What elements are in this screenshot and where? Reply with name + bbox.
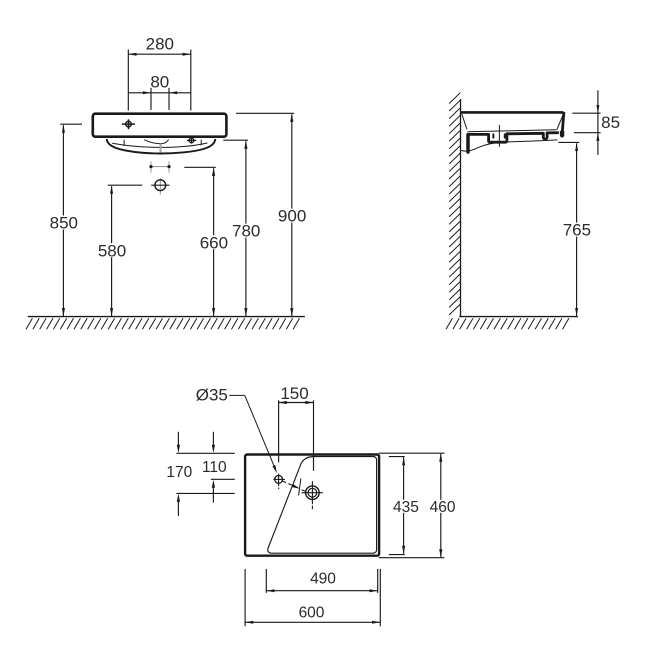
washbasin plan outline — [245, 455, 379, 556]
dimension 850 line — [62, 125, 65, 317]
dimension 660 text — [198, 233, 229, 252]
dimension 150 line — [279, 401, 314, 404]
axis between faucet and drain holes — [282, 481, 306, 492]
svg-text:85: 85 — [601, 113, 620, 132]
label diameter 35 text — [196, 385, 228, 404]
svg-text:660: 660 — [200, 233, 228, 252]
dimension 850 text — [48, 214, 79, 233]
dimension 600 left extension line — [244, 569, 246, 626]
bowl outline front view — [107, 139, 216, 154]
dimension 580 text — [97, 241, 128, 260]
svg-text:765: 765 — [563, 221, 591, 240]
dimension 660 extension line — [184, 166, 216, 168]
dimension 280 line — [128, 53, 191, 56]
floor line front view — [28, 316, 305, 318]
svg-text:780: 780 — [232, 222, 260, 241]
faucet hole symbol front view — [122, 119, 135, 129]
dimension 85 line — [596, 90, 599, 155]
dimension 490 line — [266, 589, 377, 592]
axis tick mark — [299, 478, 301, 495]
dimension 580 line — [110, 186, 113, 317]
basin underside profile side view — [467, 133, 559, 143]
svg-text:80: 80 — [150, 73, 169, 92]
dimension 435 text — [391, 499, 420, 516]
dimension 490 right extension line — [377, 569, 379, 593]
svg-text:600: 600 — [299, 604, 325, 621]
dimension 150 text — [280, 384, 308, 403]
dimension 600 right extension line — [379, 569, 381, 626]
dimension 765 extension line — [558, 141, 579, 143]
dimension 170 text — [166, 464, 192, 481]
svg-text:850: 850 — [50, 214, 78, 233]
bowl inner rim line — [112, 143, 207, 147]
dimension 600 text — [299, 604, 325, 621]
svg-text:580: 580 — [98, 241, 126, 260]
fixing hole centerlines — [151, 162, 169, 173]
dimension 460 text — [428, 499, 457, 516]
extension tick left of 80 — [150, 88, 152, 110]
wall bracket side view — [466, 135, 470, 152]
drain recess front view — [144, 140, 168, 144]
drain centerline side view — [498, 125, 500, 147]
dimension 765 line — [575, 143, 578, 317]
fixing hole left dot — [149, 165, 152, 168]
label diameter 35 leader line — [229, 395, 277, 473]
dimension 280 text — [146, 34, 174, 53]
dimension 150 right extension line — [313, 400, 315, 471]
fixing hole right dot — [167, 165, 170, 168]
plan top extension line — [176, 452, 234, 454]
dimension 660 line — [212, 168, 215, 317]
dimension 600 line — [245, 621, 380, 624]
svg-text:Ø35: Ø35 — [196, 385, 228, 404]
dimension 110 lower extension line — [211, 478, 235, 480]
floor line side view — [459, 316, 578, 318]
dimension 85 text — [601, 113, 620, 132]
basin right outer edge side view — [560, 112, 564, 138]
svg-text:170: 170 — [166, 464, 192, 481]
floor hatching side view — [446, 318, 569, 329]
svg-text:150: 150 — [280, 384, 308, 403]
dimension 110 text — [202, 459, 227, 476]
dimension 780 extension line — [223, 139, 248, 141]
basin inner left slant side view — [462, 114, 467, 129]
washbasin plan inner outline — [268, 457, 377, 554]
wall line side view — [460, 99, 462, 317]
faucet hole plan view — [273, 474, 285, 489]
bowl right edge tick — [200, 140, 202, 146]
svg-text:900: 900 — [278, 207, 306, 226]
dimension 170 arrows — [177, 432, 180, 516]
dimension 850 extension line — [60, 123, 82, 125]
dimension 110 arrows — [212, 432, 215, 503]
extension line right of 280 — [190, 50, 192, 111]
dimension 765 text — [561, 221, 592, 240]
extension line left of 280 — [127, 50, 129, 111]
dimension 435 line — [402, 457, 405, 554]
dimension 150 left extension line — [278, 400, 280, 462]
dimension 900 extension line — [236, 112, 294, 114]
basin bottom edge line side view — [461, 140, 557, 151]
drain symbol front view — [151, 178, 169, 195]
dimension 900 line — [290, 114, 293, 317]
basin top surface side view — [461, 111, 564, 114]
dimension 460 top extension line — [379, 452, 445, 454]
dimension 460 line — [439, 454, 442, 558]
bowl left edge tick — [123, 140, 125, 146]
svg-text:110: 110 — [202, 459, 227, 476]
overflow hole symbol front view — [187, 137, 196, 143]
dimension 490 text — [310, 571, 336, 588]
dimension 170 lower extension line — [176, 492, 234, 494]
svg-text:435: 435 — [393, 499, 419, 516]
dimension 435 top extension line — [389, 456, 405, 458]
washbasin front rim rectangle — [93, 114, 227, 137]
dimension 490 left extension line — [265, 569, 267, 593]
dimension 580 extension line — [108, 184, 143, 186]
svg-text:460: 460 — [430, 499, 456, 516]
basin inner bottom surface line side view — [467, 130, 556, 132]
dimension 85 bottom extension line — [574, 132, 601, 134]
wall hatching side view — [449, 93, 460, 315]
dimension 80 line — [128, 91, 191, 94]
dimension 780 text — [231, 222, 262, 241]
drain pipe front view — [159, 144, 161, 153]
dimension 460 bottom extension line — [379, 557, 445, 559]
dimension 900 text — [277, 207, 308, 226]
basin inner right slant side view — [557, 114, 564, 130]
dimension 435 bottom extension line — [389, 554, 405, 556]
svg-text:280: 280 — [146, 34, 174, 53]
svg-text:490: 490 — [310, 571, 336, 588]
drain channel hooks side view — [493, 134, 504, 137]
dimension 85 top extension line — [572, 112, 600, 114]
dimension 80 text — [150, 73, 169, 92]
drain hole plan view — [302, 481, 323, 509]
extension tick right of 80 — [168, 88, 170, 110]
floor hatching front view — [26, 318, 300, 329]
dimension 780 line — [244, 141, 247, 317]
